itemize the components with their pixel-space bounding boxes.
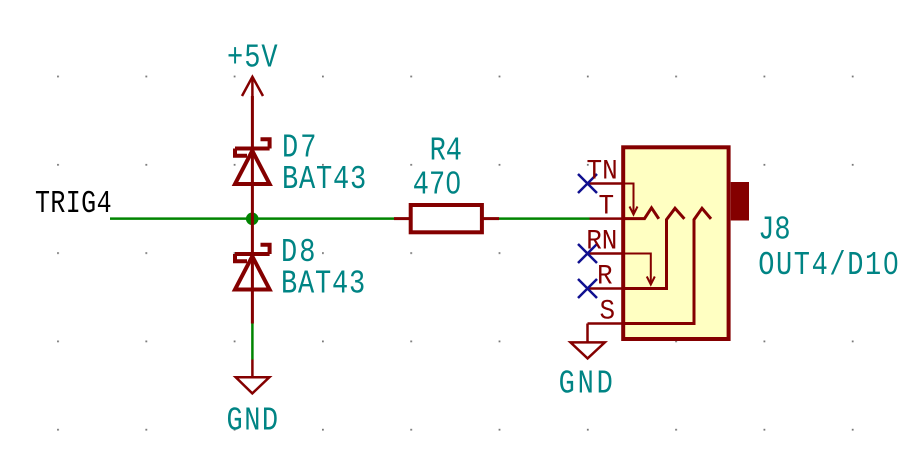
svg-text:RN: RN [586, 226, 617, 258]
svg-text:+5V: +5V [227, 40, 279, 77]
svg-text:GND: GND [227, 403, 280, 440]
svg-text:TN: TN [587, 156, 618, 188]
svg-text:BAT43: BAT43 [281, 266, 366, 303]
svg-text:GND: GND [559, 366, 616, 403]
svg-text:R4: R4 [430, 133, 462, 170]
svg-text:T: T [598, 191, 614, 223]
svg-text:J8: J8 [758, 212, 790, 249]
svg-text:470: 470 [413, 167, 462, 204]
svg-text:R: R [597, 261, 613, 293]
svg-text:BAT43: BAT43 [282, 162, 367, 199]
svg-text:OUT4/D10: OUT4/D10 [758, 248, 900, 285]
svg-text:S: S [599, 296, 615, 328]
svg-text:TRIG4: TRIG4 [35, 185, 112, 222]
